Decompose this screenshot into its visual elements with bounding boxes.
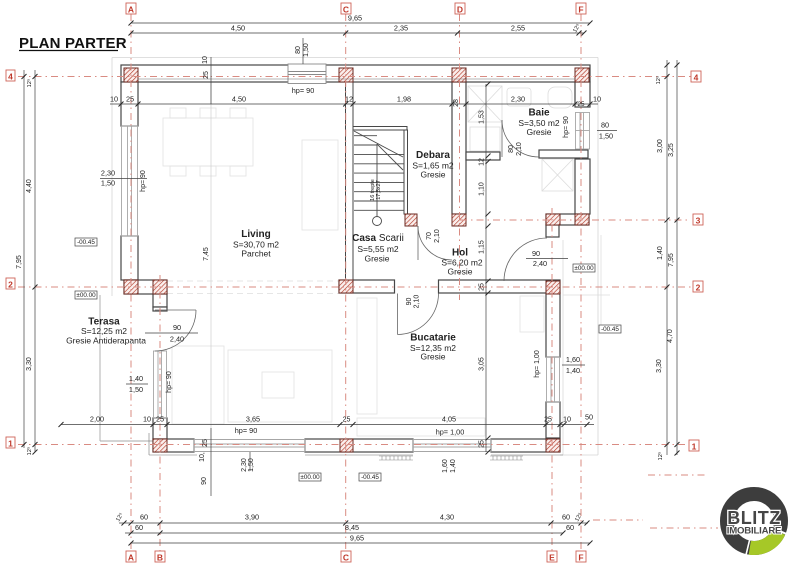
ticks chain y104 [119, 102, 593, 107]
axis A vertical [130, 14, 132, 551]
svg-text:1,60: 1,60 [566, 355, 580, 364]
faint fixture: baie sink [507, 88, 531, 106]
svg-text:4,70: 4,70 [667, 329, 674, 343]
svg-text:4,05: 4,05 [442, 415, 456, 424]
svg-text:hp= 90: hp= 90 [235, 426, 258, 435]
svg-text:hp= 90: hp= 90 [292, 86, 315, 95]
svg-text:1: 1 [8, 439, 13, 449]
ticks left lines [22, 74, 38, 455]
column B axis2 [153, 280, 167, 294]
svg-text:Bucatarie: Bucatarie [410, 333, 456, 344]
svg-text:1,50: 1,50 [101, 179, 115, 188]
svg-text:Gresie Antiderapanta: Gresie Antiderapanta [66, 336, 146, 346]
svg-text:1,40: 1,40 [657, 246, 664, 260]
svg-text:12⁵: 12⁵ [114, 511, 125, 523]
svg-text:12: 12 [479, 158, 486, 166]
svg-text:4,30: 4,30 [440, 513, 454, 522]
stair walk line [376, 144, 378, 217]
red segment bottom right b [593, 519, 643, 521]
svg-text:10,: 10, [199, 452, 206, 462]
svg-text:10: 10 [593, 95, 601, 104]
ticks bottom line2 [129, 531, 566, 536]
marker 4 right [691, 71, 701, 83]
svg-text:2,10: 2,10 [434, 229, 441, 243]
svg-text:25: 25 [577, 101, 585, 108]
axis 4 horizontal [18, 76, 691, 78]
dim ext vertical x211 bottom [210, 428, 212, 496]
faint extension line x211 [210, 82, 212, 439]
svg-text:Gresie: Gresie [447, 267, 472, 277]
svg-text:C: C [343, 553, 349, 563]
svg-text:12: 12 [345, 95, 353, 104]
room casa scarii [352, 233, 404, 264]
level +00.00 terasa [75, 291, 97, 299]
svg-text:25: 25 [203, 71, 210, 79]
svg-text:D: D [457, 5, 463, 15]
svg-text:2: 2 [696, 283, 701, 293]
svg-text:PLAN PARTER: PLAN PARTER [19, 35, 127, 52]
wall inner face thin line top [138, 78, 575, 80]
red segment bottom right a [648, 474, 708, 476]
svg-text:3,65: 3,65 [246, 415, 260, 424]
svg-text:2: 2 [8, 280, 13, 290]
faint right outline x601 [600, 235, 602, 330]
wall: left exterior mid [121, 236, 138, 280]
dim ext top window x303 [302, 38, 304, 64]
marker B bottom [155, 551, 165, 563]
svg-text:2,35: 2,35 [394, 24, 408, 33]
dim line left window 2,30 [100, 178, 147, 180]
svg-text:hp= 90: hp= 90 [140, 170, 147, 192]
svg-text:A: A [128, 553, 134, 563]
column D axis3 [452, 214, 466, 226]
axis 1 horizontal [18, 444, 689, 446]
axis 3 horizontal [460, 219, 691, 221]
svg-text:12⁵: 12⁵ [655, 75, 662, 84]
wall: left exterior upper [121, 82, 138, 126]
wall: baie stub right [539, 150, 588, 158]
wall: step below axis3 [546, 225, 559, 237]
svg-text:8,45: 8,45 [345, 523, 359, 532]
svg-text:1,50: 1,50 [303, 43, 310, 57]
door: terasa [155, 310, 196, 351]
room living [233, 229, 279, 259]
logo ring green arc [750, 532, 779, 548]
svg-text:25: 25 [156, 415, 164, 424]
dim line left inner [34, 70, 36, 452]
faint furniture: living dining table [163, 108, 544, 436]
svg-text:80: 80 [601, 121, 609, 130]
svg-text:9,65: 9,65 [350, 534, 364, 543]
svg-text:10: 10 [143, 415, 151, 424]
window: left wall lower (terasa) [153, 351, 167, 418]
dim line right inner [666, 60, 668, 455]
ticks bottom line3 [129, 541, 593, 546]
dim line top overall 9,65 [131, 22, 590, 24]
svg-text:3,25: 3,25 [668, 143, 675, 157]
svg-text:12⁵: 12⁵ [26, 446, 33, 455]
svg-text:Casa Scarii: Casa Scarii [352, 233, 404, 244]
column F-top [575, 68, 589, 82]
marker A bottom [126, 551, 136, 563]
room baie [518, 108, 560, 138]
faint fixture: baie shower [468, 86, 573, 191]
dim line hol door 90 [526, 258, 568, 260]
svg-text:S=5,55 m2: S=5,55 m2 [357, 244, 399, 254]
level +00.00 bottom [299, 473, 321, 481]
svg-text:2,30: 2,30 [101, 169, 115, 178]
dim texts rotated [16, 22, 675, 523]
svg-text:50: 50 [585, 413, 593, 422]
dim line top segments [131, 32, 584, 34]
column C-top [339, 68, 353, 82]
svg-text:60: 60 [566, 523, 574, 532]
column F axis3 [575, 214, 589, 225]
svg-text:E: E [549, 553, 555, 563]
marker A top [126, 3, 136, 15]
svg-text:-00.45: -00.45 [601, 326, 619, 333]
title PLAN PARTER [19, 35, 127, 52]
svg-text:1,40: 1,40 [566, 366, 580, 375]
wall: step below B column [153, 294, 167, 307]
svg-text:25: 25 [126, 95, 134, 104]
faint right outline y295 [563, 294, 610, 296]
svg-text:Debara: Debara [416, 150, 450, 161]
svg-text:S=12,25 m2: S=12,25 m2 [81, 326, 127, 336]
wall: F right exterior lower [575, 159, 590, 214]
ticks chain y424 [59, 422, 590, 427]
svg-text:17,5x27: 17,5x27 [376, 180, 382, 200]
svg-text:Parchet: Parchet [241, 249, 271, 259]
svg-text:90: 90 [532, 249, 540, 258]
column A-top [124, 68, 138, 82]
svg-text:2,10: 2,10 [516, 142, 523, 156]
marker F top [576, 3, 586, 15]
svg-text:1,40: 1,40 [129, 374, 143, 383]
wall: E exterior low [546, 402, 560, 438]
dim line terasa door 90 [145, 332, 198, 334]
room bucatarie [410, 333, 456, 362]
svg-text:hp= 1,00: hp= 1,00 [436, 428, 465, 437]
faint upper floor wall edges at axis2 [167, 281, 339, 294]
svg-text:2,10: 2,10 [414, 295, 421, 309]
dim line terasa window 1,40 [126, 383, 148, 385]
dim texts horizontal [90, 14, 613, 543]
paving comb strip 1 [379, 456, 523, 460]
level -00.45 right [599, 325, 621, 333]
exterior plaster thin lines [149, 433, 563, 455]
svg-text:60: 60 [135, 523, 143, 532]
wall: bottom band right [491, 439, 560, 452]
svg-text:1,50: 1,50 [129, 385, 143, 394]
wall: D interior [452, 82, 466, 214]
column A axis2 [124, 280, 138, 294]
svg-text:-00.45: -00.45 [77, 239, 95, 246]
dim ext vertical x250 [249, 452, 251, 471]
wall: axis2 band door-to-E [439, 280, 561, 293]
window: right wall F [575, 113, 590, 150]
axis F vertical [580, 14, 582, 551]
wall: baie stub left [466, 152, 500, 160]
ticks top line2 [129, 31, 587, 36]
svg-text:Baie: Baie [528, 108, 550, 119]
svg-text:25: 25 [202, 439, 209, 447]
svg-text:3,90: 3,90 [245, 513, 259, 522]
marker C top [341, 3, 351, 15]
svg-text:60: 60 [562, 513, 570, 522]
svg-text:Gresie: Gresie [420, 352, 445, 362]
svg-text:Gresie: Gresie [364, 254, 389, 264]
svg-text:12⁵: 12⁵ [26, 78, 33, 87]
faint fixture: baie wc [548, 87, 572, 108]
svg-text:1,15: 1,15 [479, 240, 486, 254]
svg-text:90: 90 [173, 323, 181, 332]
dim ext vertical x488 [485, 84, 487, 452]
svg-text:1,50: 1,50 [599, 132, 613, 141]
svg-text:9,65: 9,65 [348, 14, 362, 23]
svg-text:2,55: 2,55 [511, 24, 525, 33]
column C axis2 [339, 280, 353, 293]
marker D top [455, 3, 465, 15]
stair break diagonals [354, 131, 403, 157]
wall: E exterior mid [546, 293, 560, 357]
level +00.00 right [573, 264, 595, 272]
svg-text:F: F [578, 553, 583, 563]
marker 2 right [693, 281, 703, 293]
svg-text:25: 25 [479, 283, 486, 291]
svg-text:7,45: 7,45 [203, 247, 210, 261]
svg-text:80: 80 [508, 145, 515, 153]
dim line right outer [676, 60, 678, 455]
faint furniture: sofa set [228, 350, 332, 422]
svg-text:hp= 1,00: hp= 1,00 [534, 350, 541, 378]
faint right outline x563 [562, 240, 564, 455]
marker 1 left [6, 437, 15, 449]
axis B vertical [159, 275, 161, 551]
marker E bottom [547, 551, 557, 563]
svg-text:-00.45: -00.45 [361, 474, 379, 481]
svg-text:IMOBILIARE: IMOBILIARE [727, 526, 782, 537]
svg-text:4: 4 [694, 73, 699, 83]
svg-text:90: 90 [406, 298, 413, 306]
svg-text:1,98: 1,98 [397, 95, 411, 104]
window: left wall upper [121, 126, 138, 236]
column E axis3 [546, 214, 560, 225]
room hol [441, 248, 483, 277]
svg-text:1,10: 1,10 [479, 182, 486, 196]
svg-text:28: 28 [453, 99, 460, 107]
wall: bottom band middle [305, 439, 413, 452]
logo ring gap lines [771, 527, 789, 535]
faint furniture: living cabinet [302, 140, 338, 230]
svg-text:2,40: 2,40 [170, 335, 184, 344]
window: bottom kitchen [413, 439, 491, 452]
svg-text:hp= 90: hp= 90 [166, 371, 173, 393]
wall: axis2 left band (terasa top) [124, 280, 167, 294]
axis 2 horizontal [18, 286, 691, 288]
door: debara [418, 226, 452, 260]
svg-text:1,40: 1,40 [450, 459, 457, 473]
svg-text:80: 80 [295, 46, 302, 54]
dim ext vertical x211 top [210, 57, 212, 104]
svg-text:2,30: 2,30 [511, 95, 525, 104]
wall: stair right [404, 130, 408, 214]
column stair base [405, 214, 417, 226]
faint upper-floor overhang outline [112, 58, 598, 456]
faint fixture: shower 2 [542, 159, 573, 191]
svg-text:7,95: 7,95 [16, 255, 23, 269]
axis D vertical [459, 14, 461, 300]
svg-text:3,05: 3,05 [479, 357, 486, 371]
room debara [412, 150, 454, 180]
wall: lower-left pieces [153, 307, 167, 311]
ticks right lines [665, 63, 680, 456]
svg-text:25: 25 [544, 417, 552, 424]
dim line below top wall chain [110, 103, 598, 105]
marker F bottom [576, 551, 586, 563]
red segment bottom right c [650, 527, 718, 529]
marker 2 left [6, 278, 15, 290]
svg-text:7,95: 7,95 [668, 253, 675, 267]
room terasa [66, 317, 146, 346]
dim line left outer 7,95 [23, 70, 25, 448]
svg-text:4,50: 4,50 [232, 95, 246, 104]
logo ring dark [727, 494, 781, 548]
column E axis1 [546, 439, 560, 452]
faint fixture: washer [470, 127, 500, 151]
column B axis1 [153, 439, 167, 452]
svg-text:±00.00: ±00.00 [300, 474, 320, 481]
marker 4 left [6, 70, 15, 82]
svg-text:25: 25 [479, 440, 486, 448]
wall: F right exterior upper [575, 82, 590, 107]
dim line bottom 2 [125, 532, 563, 534]
svg-text:Gresie: Gresie [420, 170, 445, 180]
svg-text:A: A [128, 5, 134, 15]
ticks top line1 [129, 21, 593, 26]
wall: stair landing top [353, 127, 407, 131]
stair treads [354, 153, 404, 155]
svg-text:±00.00: ±00.00 [574, 265, 594, 272]
level -00.45 terasa [75, 238, 97, 246]
window: top wall [288, 64, 326, 84]
ticks x488 chain [486, 82, 491, 455]
door: baie [502, 120, 539, 157]
marker C bottom [341, 551, 351, 563]
level -00.45 bottom [359, 473, 381, 481]
svg-text:3,30: 3,30 [26, 357, 33, 371]
svg-text:10: 10 [110, 95, 118, 104]
door: hol exterior E [504, 238, 547, 281]
svg-text:70: 70 [426, 232, 433, 240]
dim line bottom 1 [119, 522, 588, 524]
wall: top exterior [121, 65, 590, 82]
wall: axis2 band C-to-door [339, 280, 395, 293]
svg-text:1,53: 1,53 [479, 110, 486, 124]
svg-text:±00.00: ±00.00 [76, 292, 96, 299]
svg-text:3,30: 3,30 [656, 359, 663, 373]
svg-text:F: F [578, 5, 583, 15]
svg-text:12⁵: 12⁵ [657, 451, 664, 460]
wall: bottom band left [153, 439, 194, 452]
terrace edge thin lines [100, 295, 153, 441]
faint furniture: kitchen counter [357, 418, 485, 436]
svg-text:Living: Living [241, 229, 270, 240]
svg-text:3: 3 [696, 216, 701, 226]
svg-text:2,30: 2,30 [241, 458, 248, 472]
svg-text:3,00: 3,00 [657, 139, 664, 153]
svg-text:25: 25 [343, 417, 351, 424]
svg-text:1,60: 1,60 [442, 459, 449, 473]
column C axis1 [340, 439, 353, 452]
svg-text:4,40: 4,40 [26, 179, 33, 193]
svg-text:4,50: 4,50 [231, 24, 245, 33]
paving comb strip 2 [490, 456, 523, 460]
svg-text:90: 90 [201, 477, 208, 485]
svg-text:hp= 90: hp= 90 [563, 116, 570, 138]
wall: C partition [346, 82, 408, 281]
door: kitchen [398, 294, 439, 335]
window: E wall kitchen [546, 357, 560, 402]
marker 3 right [693, 214, 703, 226]
svg-text:Gresie: Gresie [526, 127, 551, 137]
svg-text:1,50: 1,50 [248, 458, 255, 472]
svg-text:10: 10 [202, 56, 209, 64]
svg-text:4: 4 [8, 72, 13, 82]
wall: axis3 band right [546, 214, 589, 225]
dim line E window 1,60 [562, 364, 585, 366]
dim line right window 80 [597, 130, 617, 132]
svg-text:60: 60 [140, 513, 148, 522]
ticks bottom line1 [122, 521, 590, 526]
svg-text:10: 10 [563, 415, 571, 424]
svg-text:2,40: 2,40 [533, 259, 547, 268]
svg-text:B: B [157, 553, 163, 563]
marker 1 right [689, 440, 699, 452]
axis E vertical [551, 208, 553, 551]
window: bottom living [194, 439, 305, 452]
axis C vertical [345, 14, 347, 551]
dim ticks [22, 21, 680, 546]
svg-text:2,00: 2,00 [90, 415, 104, 424]
svg-text:1: 1 [692, 442, 697, 452]
column E axis2 [546, 281, 560, 294]
dim line bottom 3 [131, 542, 590, 544]
dim line mid chain y424 [61, 424, 594, 426]
column D-top [452, 68, 466, 82]
